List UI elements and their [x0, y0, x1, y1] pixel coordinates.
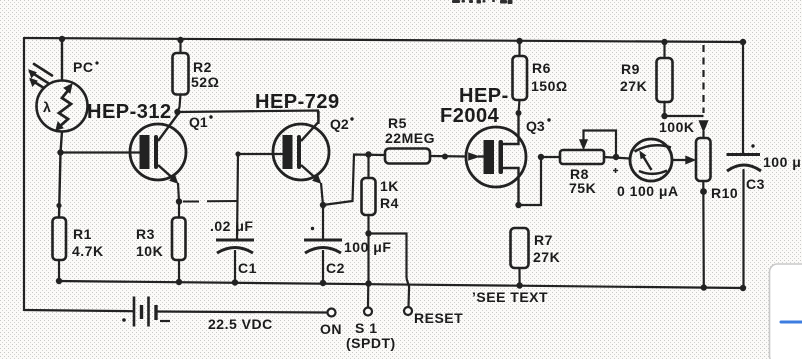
wire right rail top	[742, 42, 744, 154]
potentiometer R8	[560, 131, 630, 165]
node R7 bottom	[516, 282, 522, 288]
resistor R6	[513, 41, 528, 113]
label Q3	[526, 118, 551, 134]
resistor R2	[173, 40, 189, 112]
svg-text:27K: 27K	[533, 249, 560, 265]
svg-text:4.7K: 4.7K	[72, 243, 104, 259]
resistor R1	[53, 218, 67, 282]
label Q2	[330, 116, 354, 132]
node on R10 lead	[700, 188, 707, 195]
node Q2 emitter	[320, 202, 326, 208]
svg-text:R5: R5	[388, 115, 407, 131]
resistor R7	[511, 228, 529, 286]
capacitor C2	[304, 205, 342, 283]
wire right rail bottom	[742, 170, 744, 288]
svg-text:Q3: Q3	[526, 118, 545, 134]
node C2 bottom	[320, 280, 326, 286]
wire bottom rail	[57, 281, 743, 288]
node R9 top	[661, 39, 667, 45]
svg-text:R3: R3	[136, 226, 155, 242]
switch S1 pole	[367, 284, 369, 308]
wire Q1 collector to Q2 collector rail	[178, 111, 319, 125]
light arrows into PC1	[29, 64, 52, 88]
svg-text:75K: 75K	[569, 180, 596, 196]
svg-text:R9: R9	[621, 61, 640, 77]
transistor Q3 HEP-F2004	[466, 113, 526, 205]
node R4 rail	[365, 280, 371, 286]
svg-text:HEP-729: HEP-729	[255, 91, 340, 113]
potentiometer R10	[696, 131, 711, 288]
svg-text:C3: C3	[746, 176, 765, 192]
wire R9 bottom to R10 top	[665, 115, 704, 117]
node R4 bottom tee to reset	[365, 230, 371, 236]
node Q3 drain / R6	[516, 110, 522, 116]
svg-text:10K: 10K	[136, 243, 163, 259]
wire Q3 source to R8 left	[519, 157, 561, 205]
ui overlay card bottom right	[770, 264, 802, 359]
svg-text:0 100 μA: 0 100 μA	[617, 183, 679, 199]
svg-text:R10: R10	[711, 185, 738, 201]
wire battery feed	[24, 310, 133, 311]
node R4 top / R5 left	[365, 151, 371, 157]
node Q3 source	[515, 202, 521, 208]
switch S1 terminal RESET	[404, 307, 412, 315]
svg-text:150Ω: 150Ω	[531, 78, 568, 94]
node R1 bottom	[56, 278, 62, 284]
capacitor C3	[727, 155, 762, 172]
svg-text:100 μF: 100 μF	[763, 154, 802, 170]
resistor R3	[172, 202, 186, 283]
wire meter to R10 wiper arrow	[672, 157, 695, 164]
battery B1	[134, 297, 327, 327]
svg-text:100K: 100K	[659, 119, 694, 135]
svg-text:HEP-312: HEP-312	[87, 101, 172, 123]
resistor R9	[657, 42, 673, 116]
transistor Q2 HEP-729	[238, 111, 329, 205]
svg-text:RESET: RESET	[414, 310, 463, 326]
node C1 bottom	[232, 279, 238, 285]
label Q1	[189, 114, 213, 130]
node Q1 emitter	[176, 198, 182, 204]
wire Q2 emitter to R4/R5 node	[323, 155, 385, 206]
svg-text:PC: PC	[73, 59, 93, 75]
svg-text:R4: R4	[380, 195, 399, 211]
node Q2 base corner	[235, 151, 240, 156]
svg-text:27K: 27K	[620, 78, 647, 94]
svg-text:S 1: S 1	[355, 320, 378, 336]
svg-text:’SEE TEXT: ’SEE TEXT	[472, 289, 548, 305]
svg-text:ON: ON	[320, 321, 342, 337]
node R8 right	[613, 154, 619, 160]
node PC top	[59, 36, 65, 42]
resistor R5	[385, 149, 467, 164]
wire Q1 emitter to Q2 base node (dashed faded)	[183, 200, 237, 203]
plus mark meter	[613, 168, 618, 173]
node PC / Q1 base tee	[57, 149, 63, 155]
capacitor C1	[216, 240, 254, 283]
svg-text:HEP-: HEP-	[459, 85, 509, 107]
svg-text:R1: R1	[73, 226, 92, 242]
node right rail bottom corner	[740, 285, 746, 291]
node R10 rail	[701, 284, 707, 290]
svg-text:52Ω: 52Ω	[191, 74, 219, 90]
node on R5-Q3 wire	[442, 154, 448, 160]
svg-text:C2: C2	[326, 260, 345, 276]
svg-text:(SPDT): (SPDT)	[346, 335, 396, 351]
node R2 top	[177, 37, 183, 43]
switch S1 terminal ON	[328, 309, 336, 317]
svg-text:.02 μF: .02 μF	[210, 218, 253, 234]
svg-text:R7: R7	[534, 232, 553, 248]
svg-text:λ: λ	[43, 99, 51, 115]
dashed line top rail to R10	[700, 45, 708, 131]
svg-text:R6: R6	[532, 60, 551, 76]
wire top rail	[24, 38, 743, 42]
svg-text:F2004: F2004	[440, 105, 500, 127]
node R8 left	[538, 154, 544, 160]
svg-text:1K: 1K	[380, 178, 399, 194]
node on R1 lead	[56, 203, 61, 208]
node R9 bottom	[661, 113, 667, 119]
svg-text:22MEG: 22MEG	[385, 130, 435, 146]
wire left rail	[23, 38, 25, 310]
svg-text:C1: C1	[238, 260, 257, 276]
resistor R4	[362, 155, 376, 284]
node top right corner	[740, 39, 746, 45]
transistor Q1 HEP-312	[61, 114, 187, 202]
ui blue line	[781, 321, 802, 324]
wire R4 tee to RESET	[369, 234, 410, 308]
photocell PC1	[37, 39, 88, 218]
svg-text:Q2: Q2	[330, 116, 349, 132]
label SEE TEXT	[472, 289, 548, 305]
meter M1 0-100uA	[630, 139, 672, 181]
node R6 top	[516, 38, 522, 44]
svg-text:Q1: Q1	[189, 114, 208, 130]
svg-text:R2: R2	[193, 59, 212, 75]
node R3 bottom	[176, 279, 182, 285]
wire Q2 base to C1	[237, 154, 238, 240]
svg-text:22.5 VDC: 22.5 VDC	[208, 316, 273, 332]
title fragment (clipped text at top edge)	[452, 0, 513, 4]
node Q1 collector / R2	[174, 109, 180, 115]
